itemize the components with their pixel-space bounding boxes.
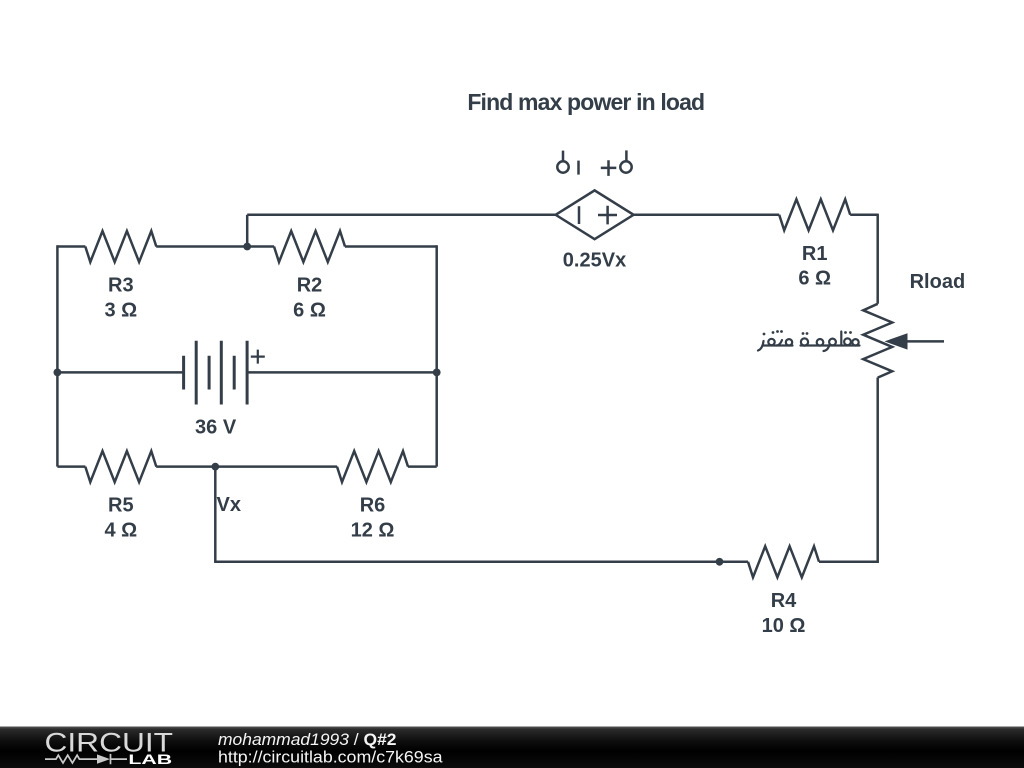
- svg-text:R1: R1: [802, 243, 828, 265]
- wire from dependent source to R1: [634, 214, 780, 217]
- dependent source plus sign: [598, 206, 617, 225]
- sense terminal left stem: [562, 151, 565, 162]
- wire battery left lead: [57, 371, 183, 374]
- wire battery right lead: [247, 371, 437, 374]
- battery V1 plates: [184, 341, 248, 405]
- svg-text:12 Ω: 12 Ω: [351, 519, 395, 541]
- svg-text:LAB: LAB: [128, 752, 172, 767]
- resistor R3: [85, 231, 156, 262]
- svg-text:R5: R5: [108, 495, 134, 517]
- node left rail / battery: [54, 369, 62, 377]
- sense terminal right circle: [620, 161, 631, 172]
- wire top-right corner down to Rload: [876, 214, 879, 304]
- Rload wiper arrow: [885, 333, 908, 349]
- wire Rload bottom down to bottom row: [876, 378, 879, 562]
- resistor R4: [748, 546, 819, 577]
- battery V1 plus sign: [251, 350, 265, 364]
- svg-text:6 Ω: 6 Ω: [293, 299, 326, 321]
- svg-text:R4: R4: [771, 590, 797, 612]
- svg-text:Rload: Rload: [910, 271, 966, 293]
- wire R3 to R2: [156, 245, 274, 248]
- svg-text:Vx: Vx: [217, 494, 241, 516]
- wire R2 right lead to corner: [345, 245, 437, 248]
- resistor R5: [85, 451, 156, 482]
- resistor R6: [337, 451, 408, 482]
- footer logo resistor-diode squiggle: [45, 755, 97, 763]
- footer bar: [0, 727, 1024, 768]
- svg-text:4 Ω: 4 Ω: [104, 519, 137, 541]
- Rload arabic annotation "variable resistance": [758, 332, 860, 352]
- node Vx junction: [211, 463, 219, 471]
- wire R4 right lead to bottom-right corner: [819, 561, 878, 562]
- svg-text:6 Ω: 6 Ω: [798, 268, 831, 290]
- sense terminal left circle: [557, 161, 568, 172]
- node R3/R2 junction: [243, 243, 251, 251]
- svg-text:10 Ω: 10 Ω: [762, 615, 806, 637]
- svg-text:3 Ω: 3 Ω: [104, 299, 137, 321]
- wire R1 to top-right corner: [850, 214, 878, 217]
- sense plus sign: [601, 160, 617, 176]
- wire right vertical rail of left loop: [435, 245, 438, 466]
- wire R5 left lead: [57, 465, 85, 468]
- wire top row left of dependent source: [247, 214, 555, 217]
- wire R5 to R6: [156, 465, 337, 468]
- node bottom row junction: [716, 558, 724, 566]
- resistor R2: [274, 231, 345, 262]
- node right rail / battery: [433, 369, 441, 377]
- sense minus bar: [577, 161, 580, 175]
- wire R3 left lead: [57, 245, 85, 248]
- svg-text:R3: R3: [108, 275, 134, 297]
- svg-text:R6: R6: [360, 495, 386, 517]
- svg-text:mohammad1993 / Q#2: mohammad1993 / Q#2: [218, 731, 397, 749]
- wire left vertical rail: [56, 245, 59, 466]
- svg-text:R2: R2: [297, 275, 323, 297]
- dependent source V2 diamond: [556, 190, 634, 239]
- sense terminal right stem: [625, 150, 628, 161]
- svg-text:0.25Vx: 0.25Vx: [563, 250, 626, 272]
- wire R6 right lead to corner: [408, 465, 437, 468]
- dependent source minus bar: [578, 206, 581, 224]
- svg-text:36 V: 36 V: [195, 417, 237, 439]
- resistor R1: [779, 199, 850, 230]
- wire bottom row to R4: [214, 561, 748, 564]
- svg-text:Find max power in load: Find max power in load: [467, 89, 704, 115]
- svg-text:http://circuitlab.com/c7k69sa: http://circuitlab.com/c7k69sa: [218, 748, 443, 766]
- resistor Rload (variable): [863, 304, 892, 378]
- wire node Vx down from R5/R6 junction: [214, 467, 217, 562]
- wire node A up from R3/R2 junction: [246, 215, 249, 247]
